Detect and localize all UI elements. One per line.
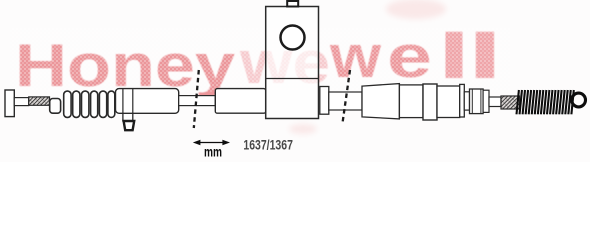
step right of block	[320, 87, 329, 115]
break line 1	[194, 70, 199, 128]
bracket tab below	[123, 110, 133, 121]
bellows ring 4	[91, 91, 98, 117]
arrowhead left	[193, 140, 201, 146]
svg-text:1637/1367: 1637/1367	[243, 136, 293, 152]
block circle hole	[281, 26, 305, 50]
barrel	[470, 89, 484, 114]
rect F	[437, 86, 460, 118]
collar big	[423, 84, 437, 120]
watermark dither texture	[10, 28, 510, 92]
eyelet	[572, 93, 586, 107]
barrel inner line b	[480, 89, 482, 114]
cone fitting	[362, 84, 399, 119]
left end fitting	[5, 90, 14, 117]
spring coils	[517, 90, 574, 114]
small piece	[483, 90, 489, 112]
arrowhead right	[222, 140, 230, 146]
central block	[266, 7, 319, 119]
tube 2	[329, 92, 362, 110]
stub	[464, 92, 469, 110]
housing body	[116, 89, 179, 114]
rect E	[399, 85, 423, 118]
housing slot line b	[132, 89, 134, 113]
faint pink smudge top right	[386, 0, 446, 19]
bracket boot thick	[124, 121, 135, 130]
rod left	[14, 98, 28, 106]
boot small collar	[50, 99, 61, 114]
rod right	[489, 97, 501, 107]
break line 2	[343, 70, 351, 123]
bellows ring 6	[108, 91, 115, 117]
faint pink smudge below block	[289, 124, 317, 134]
bellows ring 5	[99, 91, 106, 117]
bellows ring 3	[82, 91, 89, 117]
rect D outer conduit	[215, 89, 265, 114]
braided cable right	[501, 96, 520, 109]
block top tab	[287, 1, 298, 7]
svg-text:mm: mm	[204, 144, 222, 159]
bellows ring 2	[73, 91, 80, 117]
braided cable left	[29, 97, 50, 105]
tube 1	[179, 96, 216, 106]
barrel inner line a	[471, 89, 473, 114]
dimension arrow	[198, 142, 225, 144]
bellows ring 1	[64, 91, 71, 117]
flange	[460, 84, 465, 117]
housing slot line a	[122, 89, 124, 113]
block inner line	[266, 78, 319, 80]
